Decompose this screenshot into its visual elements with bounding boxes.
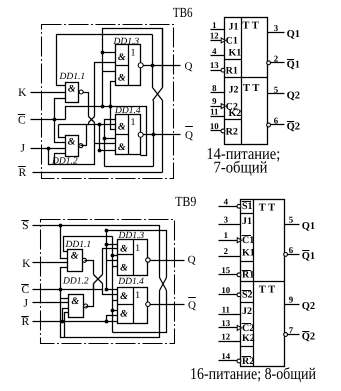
IC divider under K1 TB9	[241, 261, 254, 263]
svg-text:&: &	[71, 296, 79, 307]
IC boundary (dash-dot) TB6	[42, 25, 174, 179]
pin 13 inversion circle	[221, 68, 225, 72]
pin 3 output line	[268, 32, 285, 34]
IC divider under S1	[241, 213, 254, 215]
node DD1.3 input 3 junction	[111, 254, 115, 258]
svg-text:&: &	[68, 137, 76, 148]
svg-text:K: K	[22, 258, 31, 270]
svg-text:&: &	[118, 72, 126, 83]
svg-text:&: &	[120, 309, 128, 320]
wire Q-bar feedback riser	[153, 135, 155, 167]
pin 11 line	[219, 314, 241, 316]
wire DD1.2 output up TB9	[86, 284, 94, 307]
svg-text:1: 1	[131, 47, 136, 58]
wire R input TB9	[33, 321, 118, 323]
wire DD1.3 input 5	[113, 266, 118, 268]
svg-text:&: &	[120, 291, 128, 302]
wire DD1.4 input row from loop rail	[113, 300, 118, 302]
pin 5 output line	[268, 93, 285, 95]
wire DD1.2 input 1 from crossover rail	[59, 125, 66, 138]
pin 6 inversion circle	[267, 123, 271, 127]
svg-text:ТВ6: ТВ6	[173, 6, 193, 21]
node DD1.4 input 1 junction	[105, 288, 109, 292]
wire DD1.3 input 2 riser	[95, 63, 116, 117]
svg-text:&: &	[71, 251, 79, 262]
pin 5 output line	[285, 224, 300, 226]
wire DD1.2 input 4 riser	[55, 154, 66, 165]
svg-text:J2: J2	[229, 84, 239, 95]
svg-text:Q1: Q1	[302, 221, 315, 232]
svg-text:16-питание; 8-общий: 16-питание; 8-общий	[190, 364, 316, 383]
pin 10 line	[219, 294, 237, 296]
pin 4 line	[211, 55, 225, 57]
wire DD1.3 input 1	[103, 52, 116, 54]
pin 10 line	[211, 130, 221, 132]
svg-text:2: 2	[224, 246, 229, 256]
wire C distribution rail	[66, 107, 147, 156]
svg-text:&: &	[118, 52, 126, 63]
svg-text:C: C	[21, 284, 29, 296]
svg-text:6: 6	[289, 245, 294, 255]
wire crossover left tail	[88, 123, 90, 125]
wire DD1.2 output up to crossover	[81, 125, 87, 146]
IC divider under S2	[241, 302, 254, 304]
wire DD1.2 input 1 from C rail	[61, 298, 69, 300]
wire Q output	[144, 65, 181, 67]
pin 12 line	[219, 341, 241, 343]
node Q junction	[151, 64, 155, 68]
svg-text:J: J	[21, 143, 26, 155]
wire feedback rail down TB9	[106, 231, 108, 290]
svg-text:J2: J2	[242, 306, 252, 317]
svg-text:C: C	[18, 114, 26, 126]
node C rail junction at DD1.3 riser	[109, 105, 113, 109]
svg-text:10: 10	[221, 285, 230, 295]
wire C input	[31, 119, 66, 121]
wire J input	[31, 148, 66, 150]
pin 15 inversion circle	[237, 273, 241, 277]
pin 9 dynamic input wedge	[221, 104, 225, 109]
svg-text:S: S	[22, 220, 28, 232]
pin 2 inversion circle	[267, 61, 271, 65]
svg-text:12: 12	[221, 331, 230, 341]
svg-text:Q: Q	[188, 300, 196, 312]
svg-text:K: K	[18, 87, 27, 99]
wire crossover left tail TB9	[93, 284, 95, 290]
svg-text:9: 9	[212, 96, 217, 106]
svg-text:R2: R2	[226, 126, 238, 137]
wire DD1.4 input 1	[105, 120, 116, 167]
crossover X2 right side	[153, 88, 163, 101]
wire crossover to DD1.3 input 2	[103, 249, 118, 275]
wire C descent rail TB9	[61, 290, 160, 338]
svg-text:R: R	[18, 167, 26, 179]
wire right column inner above X	[152, 35, 154, 88]
wire DD1.3 input 4 riser	[111, 82, 116, 107]
svg-text:J: J	[24, 297, 29, 309]
wire DD1.4 input rail down	[99, 125, 101, 151]
node R junction 2	[105, 320, 109, 324]
svg-text:Q1: Q1	[302, 251, 315, 262]
wire R input	[33, 172, 163, 174]
IC section divider TB9	[241, 281, 285, 283]
svg-text:K1: K1	[242, 248, 255, 259]
wire feedback rail B TB9	[113, 291, 167, 333]
svg-text:12: 12	[210, 30, 219, 40]
pin 8 line	[211, 92, 225, 94]
svg-text:DD1.3: DD1.3	[113, 37, 140, 47]
svg-text:TT: TT	[259, 203, 278, 214]
wire Q-bar output	[144, 134, 181, 136]
wire DD1.3 input 3 TB9	[113, 255, 118, 257]
pin 9 output line	[285, 304, 300, 306]
pin 13 line	[219, 327, 241, 329]
svg-text:Q1: Q1	[287, 29, 300, 40]
svg-text:13: 13	[221, 318, 230, 328]
svg-text:&: &	[120, 263, 128, 274]
node DD1.4 lower input 1 junction	[103, 137, 107, 141]
wire DD1.4 lower input 3	[100, 150, 116, 152]
svg-text:11: 11	[222, 305, 230, 315]
gate DD1.4 TB9 (AND-NOR)	[118, 288, 148, 324]
svg-text:&: &	[68, 83, 76, 94]
gate DD1.4 (AND-NOR)	[116, 115, 141, 155]
svg-text:3: 3	[224, 214, 229, 224]
svg-text:DD1.2: DD1.2	[62, 277, 89, 287]
svg-text:14: 14	[221, 351, 230, 361]
wire DD1.2 input 3 from R junction	[63, 309, 69, 322]
IC section divider	[225, 77, 268, 79]
wire Q-bar output TB9	[151, 304, 185, 306]
svg-text:1: 1	[135, 243, 140, 254]
pin 1 line	[211, 29, 225, 31]
pin 10 inversion circle	[221, 129, 225, 133]
wire DD1.4 lower input 1	[105, 138, 116, 140]
pin 4 line	[219, 206, 237, 208]
pin 1 line	[219, 240, 241, 242]
gate DD1.3 TB9 (AND-NOR)	[118, 240, 148, 276]
node S junction	[59, 224, 63, 228]
IC divider under K2 TB9	[241, 346, 254, 348]
gate DD1.2 (NAND)	[66, 136, 79, 157]
svg-text:K1: K1	[229, 47, 242, 58]
svg-text:Q: Q	[185, 129, 193, 141]
node R junction 1	[61, 320, 65, 324]
pin 11 line	[211, 116, 225, 118]
IC divider under K2	[225, 119, 242, 121]
gate DD1.2 TB9 (NAND)	[69, 295, 84, 318]
node Q-bar junction	[152, 133, 156, 137]
wire DD1.1 output down TB9	[85, 261, 94, 275]
svg-text:7-общий: 7-общий	[214, 157, 268, 176]
svg-text:1: 1	[224, 230, 228, 240]
gate DD1.1 TB9 (NAND)	[68, 250, 83, 272]
wire right outer above X	[162, 29, 164, 88]
svg-text:11: 11	[210, 106, 218, 116]
svg-text:9: 9	[289, 295, 294, 305]
pin 12 line	[211, 40, 225, 42]
wire right column outer below X to R	[162, 101, 164, 173]
svg-text:DD1.4: DD1.4	[117, 277, 144, 287]
pin 14 line	[219, 360, 237, 362]
node C junction TB9	[59, 288, 63, 292]
wire DD1.4 lower input 1 TB9	[113, 310, 118, 312]
svg-text:R1: R1	[226, 66, 238, 77]
pin 7 inversion circle	[284, 333, 288, 337]
pin 15 line	[219, 274, 237, 276]
svg-text:DD1.1: DD1.1	[59, 72, 86, 82]
svg-text:TT: TT	[243, 83, 262, 94]
wire DD1.3 input 3	[103, 71, 116, 73]
wire over wire TB9	[107, 231, 167, 278]
crossover X2 TB9 right	[160, 278, 167, 291]
wire DD1.2 input 4 riser	[65, 313, 69, 338]
svg-text:4: 4	[224, 196, 229, 206]
svg-text:1: 1	[135, 290, 140, 301]
wire C input TB9	[33, 289, 103, 291]
svg-text:7: 7	[289, 325, 294, 335]
wire bottom feedback rail	[105, 166, 154, 168]
wire J branch rail	[49, 123, 95, 165]
svg-text:10: 10	[210, 121, 219, 131]
node J branch junction	[47, 147, 51, 151]
svg-text:Q2: Q2	[287, 91, 300, 102]
svg-text:15: 15	[221, 265, 230, 275]
svg-text:C1: C1	[226, 36, 238, 47]
wire DD1.4 lower input 2 from J rail	[95, 143, 116, 145]
pin 2 line	[219, 256, 241, 258]
svg-text:TT: TT	[242, 21, 261, 32]
wire DD1.3 input 4	[107, 260, 118, 262]
svg-text:DD1.1: DD1.1	[65, 240, 92, 250]
svg-text:Q2: Q2	[302, 301, 315, 312]
IC left column divider	[241, 18, 243, 145]
svg-text:Q1: Q1	[287, 59, 300, 70]
svg-text:5: 5	[274, 85, 279, 95]
IC body TB6 symbol	[225, 18, 268, 145]
svg-text:J1: J1	[229, 21, 239, 32]
wire S input	[33, 226, 160, 278]
IC divider under K1	[225, 59, 242, 61]
pin 3 line	[219, 224, 241, 226]
svg-text:J1: J1	[242, 216, 252, 227]
svg-text:13: 13	[210, 60, 219, 70]
pin 12 dynamic input wedge	[221, 38, 225, 43]
svg-text:R: R	[21, 316, 29, 328]
pin 1 dynamic input wedge	[237, 238, 241, 243]
svg-text:Q: Q	[185, 61, 193, 73]
svg-text:2: 2	[274, 53, 279, 63]
wire DD1.1 output down to crossover	[83, 93, 89, 117]
svg-text:ТВ9: ТВ9	[175, 195, 196, 210]
wire J input TB9	[33, 302, 69, 304]
svg-text:3: 3	[274, 23, 279, 33]
pin 14 inversion circle	[237, 359, 241, 363]
wire crossover down to DD1.4 input 2	[103, 284, 118, 295]
wire right inner below X	[153, 101, 155, 135]
svg-text:4: 4	[212, 46, 217, 56]
pin 6 inversion circle	[284, 253, 288, 257]
svg-text:R1: R1	[242, 270, 254, 281]
svg-text:6: 6	[274, 116, 279, 126]
wire R riser to DD1.4	[107, 316, 118, 322]
pin 13 dynamic input wedge	[237, 325, 241, 330]
node over wire junction	[105, 229, 109, 233]
svg-text:&: &	[118, 142, 126, 153]
pin 13 line	[211, 70, 221, 72]
crossover X1 between input gates and latch gates	[89, 117, 95, 123]
svg-text:S2: S2	[242, 290, 253, 301]
wire Q output TB9	[151, 260, 185, 262]
wire K input TB9	[33, 262, 68, 264]
gate DD1.3 (AND-NOR)	[116, 45, 141, 86]
wire over-the-top feedback	[103, 29, 163, 107]
node C junction	[53, 118, 57, 122]
svg-text:&: &	[120, 243, 128, 254]
svg-text:K2: K2	[242, 333, 255, 344]
wire S riser to DD1.1 input 2	[61, 226, 68, 259]
IC left column divider TB9	[253, 200, 255, 367]
svg-text:Q2: Q2	[302, 331, 315, 342]
pin 9 line	[211, 106, 225, 108]
wire K input	[31, 92, 66, 94]
IC boundary (dash-dot) TB9	[41, 220, 175, 344]
node DD1.4 input row junction	[98, 123, 102, 127]
wire loop rail down right	[112, 237, 114, 333]
svg-text:Q: Q	[188, 254, 196, 266]
node DD1.3 input 1 junction	[105, 243, 109, 247]
IC body TB9 symbol	[241, 200, 285, 367]
svg-text:Q2: Q2	[287, 122, 300, 133]
wire loop top edge TB9 to DD1.1 input 1	[64, 237, 113, 252]
crossover X1 TB9	[94, 275, 103, 284]
svg-text:1: 1	[212, 20, 216, 30]
node DD1.4 lower input junction	[98, 149, 102, 153]
wire C riser to DD1.1 input 3	[55, 99, 66, 120]
pin 10 inversion circle	[237, 293, 241, 297]
node DD1.3 input 1 junction	[101, 51, 105, 55]
gate DD1.1 (NAND)	[66, 83, 79, 103]
svg-text:&: &	[118, 122, 126, 133]
svg-text:S1: S1	[242, 201, 253, 212]
svg-text:C1: C1	[242, 235, 254, 246]
svg-text:1: 1	[131, 117, 136, 128]
svg-text:TT: TT	[259, 285, 278, 296]
node DD1.4 lower input junction	[111, 309, 115, 313]
wire C riser up to DD1.1 input 4	[61, 268, 68, 290]
pin 4 inversion circle	[237, 204, 241, 208]
wire DD1.4 input 1 TB9	[107, 289, 118, 291]
wire loop top edge to DD1.1 input 1	[57, 35, 153, 86]
wire C riser down to DD1.2 input 2	[55, 120, 66, 143]
wire DD1.4 input 3 from C rail	[111, 107, 116, 130]
svg-text:K2: K2	[229, 108, 242, 119]
wire DD1.3 input 1 TB9	[107, 244, 118, 246]
svg-text:5: 5	[289, 215, 294, 225]
wire crossover rail to DD1.4 input 2	[59, 124, 116, 126]
node C rail junction at over wire	[101, 105, 105, 109]
svg-text:8: 8	[212, 83, 217, 93]
